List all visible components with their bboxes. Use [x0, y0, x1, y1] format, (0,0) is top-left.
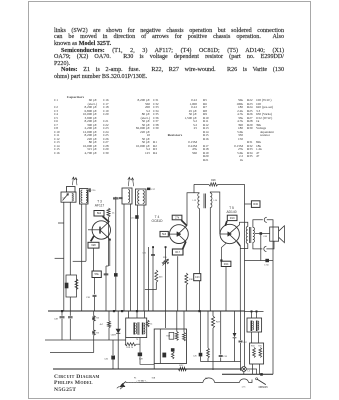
svg-text:+ 9V BATT –: + 9V BATT – — [136, 379, 148, 382]
resistor R3 — [92, 330, 95, 335]
wire blob to bus — [115, 277, 117, 311]
wires into driver transformer — [128, 311, 130, 318]
T3 collector lead — [100, 222, 109, 230]
AF box inner edge — [159, 329, 161, 364]
jack coil right — [256, 321, 258, 332]
resistor R35 — [259, 348, 262, 358]
battery enclosure top — [244, 260, 273, 262]
T6 secondary winding — [142, 323, 144, 335]
svg-text:R22: R22 — [179, 365, 184, 367]
svg-text:R18: R18 — [189, 279, 194, 281]
T5 base bar arrow — [228, 232, 232, 237]
caption bottom left — [54, 374, 100, 394]
thermistor R26 — [162, 261, 169, 264]
svg-text:4k7: 4k7 — [100, 324, 104, 326]
resistor R9 boxed value — [88, 242, 99, 248]
wire R28 left leg — [193, 184, 195, 192]
resistor R13 boxed value — [172, 215, 182, 220]
wires into AF box — [165, 311, 167, 328]
wire secondary top to T5 base — [210, 192, 220, 234]
svg-text:R17: R17 — [175, 250, 180, 254]
speaker bottom wire — [266, 241, 274, 249]
wire IFT1 left down — [123, 204, 125, 311]
svg-text:C20: C20 — [92, 190, 97, 192]
wire aerial coil down — [63, 202, 65, 311]
wire lamp to bottom rail — [243, 372, 245, 375]
driver transformer T7 primary — [198, 193, 200, 209]
capacitor C35 — [220, 311, 222, 355]
svg-text:1k: 1k — [150, 324, 152, 326]
svg-text:L14: L14 — [214, 200, 218, 202]
parts table column 5 — [247, 99, 299, 159]
wire R30 to supply rail — [245, 203, 252, 205]
svg-text:R30: R30 — [253, 202, 258, 206]
T4 base wire — [168, 233, 177, 235]
svg-text:5k6: 5k6 — [162, 232, 167, 236]
svg-text:S1B: S1B — [152, 377, 156, 379]
svg-text:R19: R19 — [230, 216, 235, 220]
wire secondary top to connector — [253, 220, 263, 228]
T5 emitter lead — [230, 235, 237, 242]
switch hump S1 — [203, 378, 215, 383]
T5 base wire — [220, 233, 228, 235]
capacitor C50 — [265, 259, 269, 262]
resistor R15b — [146, 320, 149, 327]
resistor R28 — [194, 183, 209, 185]
resistor R17 boxed value — [172, 249, 183, 255]
T5 bottom wire to R24 — [221, 243, 226, 260]
wire osc box to C20 — [87, 189, 90, 191]
audio earth rail — [53, 368, 241, 370]
jack resistor box — [250, 343, 264, 364]
resistor R14 boxed value — [160, 231, 168, 236]
svg-text:C35: C35 — [223, 356, 228, 358]
resistor R34 — [253, 348, 256, 358]
driver transformer core — [203, 194, 205, 209]
svg-text:R16 1k: R16 1k — [127, 347, 133, 349]
capacitor C13 top — [113, 197, 119, 199]
svg-text:OA79: OA79 — [111, 333, 117, 336]
wire R27 down — [212, 328, 214, 370]
resistor R20 — [183, 332, 186, 341]
svg-text:R18: R18 — [166, 336, 171, 338]
wire bottom joins — [201, 361, 241, 363]
wire R24 to bus — [225, 267, 227, 312]
wire C17 down — [148, 247, 150, 311]
wire transformer to speaker — [255, 233, 270, 235]
connector half top — [264, 217, 267, 222]
AF amplifier box — [154, 329, 186, 364]
wire oscillator down left — [81, 204, 83, 311]
capacitor C9 — [119, 197, 123, 199]
IFT2 secondary winding — [143, 191, 145, 204]
svg-text:OC81D: OC81D — [152, 219, 164, 223]
capacitor C11 in loop — [65, 283, 69, 289]
transistor T3 — [92, 221, 110, 239]
junction square on bottom rail — [260, 373, 263, 376]
wire R8 down — [108, 217, 110, 266]
resistor R15 — [155, 270, 158, 282]
wire AF line 2 — [50, 352, 94, 354]
coil L2 winding — [72, 193, 74, 201]
wire driver box left down — [125, 338, 127, 345]
resistor R21 small — [171, 352, 174, 359]
capacitor C46 column — [112, 340, 114, 355]
T5 collector wire — [238, 222, 248, 226]
resistor R18 upper — [185, 273, 188, 285]
trimmer arrow in aerial box — [63, 194, 69, 201]
svg-text:R27: R27 — [216, 322, 221, 324]
battery hump 2 — [240, 379, 249, 383]
svg-text:C15: C15 — [131, 217, 136, 219]
svg-text:56k: 56k — [94, 272, 99, 276]
parts table column 2 — [103, 99, 150, 155]
junction blob mid — [152, 246, 154, 248]
svg-text:AF117: AF117 — [95, 203, 105, 207]
wire T4 emitter down — [177, 256, 179, 311]
T4 collector wire — [187, 193, 200, 226]
capacitor C25 box — [169, 332, 174, 339]
tuning arrows above IF transformer — [128, 177, 131, 186]
wire between R4 R3 — [93, 321, 95, 330]
resistor R16 zigzag — [125, 343, 136, 346]
resistor R10 boxed value — [94, 211, 104, 217]
wire x165 down — [165, 247, 167, 311]
driver transformer secondary — [210, 193, 212, 208]
capacitor C16 — [104, 273, 109, 275]
svg-text:8k2: 8k2 — [97, 211, 102, 215]
battery enclosure bottom wire — [244, 310, 263, 312]
wire C22 column — [152, 247, 154, 255]
battery lead dashed — [126, 381, 139, 383]
T3 emitter down wire — [109, 241, 111, 266]
capacitor C14 blob — [114, 273, 118, 277]
jack coil left — [250, 321, 252, 332]
svg-text:C37: C37 — [243, 342, 248, 344]
svg-text:R34: R34 — [251, 346, 254, 348]
svg-text:C17: C17 — [151, 189, 156, 191]
wire IFT2 right down — [143, 205, 145, 311]
capacitor C26 blob — [162, 353, 166, 358]
wire stub at 290 — [145, 289, 157, 291]
wires jack resistor box to rail — [252, 364, 254, 374]
wire driver secondary down — [209, 208, 211, 312]
diode X2 — [234, 311, 236, 333]
junction on bus 3 — [198, 310, 200, 312]
T6 primary winding — [133, 323, 135, 335]
wire T3 emitter down — [93, 248, 95, 271]
wire lamp to jack — [246, 369, 256, 374]
wire IFT1 right down — [130, 204, 132, 311]
svg-text:C21: C21 — [142, 252, 147, 254]
parts table column 1 — [54, 96, 97, 156]
resistor R4 — [93, 311, 95, 316]
svg-text:C 50: C 50 — [264, 264, 269, 266]
junction on bus — [121, 310, 123, 312]
jack transformer box — [247, 318, 262, 332]
parts table column 3 — [153, 99, 197, 155]
wire aerial coil secondary down — [69, 202, 71, 275]
wire driver primary down — [199, 209, 201, 274]
wire loop to AVC bus — [69, 297, 71, 311]
svg-text:S1: S1 — [205, 378, 208, 380]
svg-text:R35: R35 — [258, 346, 261, 348]
resistor R2 in loop — [75, 279, 78, 290]
svg-text:1.75: 1.75 — [242, 387, 247, 389]
capacitor C27 blob — [171, 348, 175, 351]
resistor R27 — [212, 311, 214, 316]
T4 emitter lead — [179, 235, 186, 241]
oscillator coil box L3 L4 — [80, 189, 89, 205]
junction on bus 5 — [136, 310, 138, 312]
capacitor C48 — [61, 311, 63, 316]
wire stub horizontal — [73, 260, 86, 262]
parts table column 4 — [203, 99, 243, 162]
wire IFT2 left down — [137, 205, 139, 311]
battery lead wire — [139, 380, 252, 383]
capacitor C20 — [88, 188, 90, 192]
speaker LS1 — [270, 227, 279, 241]
T3 collector wire thick — [103, 216, 110, 222]
svg-text:F5: F5 — [134, 378, 136, 380]
aerial trimmer box C1 — [67, 187, 76, 193]
connector half bottom — [264, 246, 267, 251]
svg-text:C46: C46 — [104, 358, 109, 360]
svg-text:3k3: 3k3 — [159, 277, 163, 279]
tuned loop rectangle — [66, 275, 77, 297]
resistor R19 boxed value — [227, 215, 237, 220]
svg-text:R24: R24 — [224, 263, 229, 266]
T5 emitter wire thick — [237, 242, 240, 246]
supply rail right vertical — [244, 184, 246, 366]
junction blob C15 — [135, 215, 138, 219]
svg-text:C23: C23 — [195, 276, 200, 279]
wire secondary bottom to connector — [253, 242, 263, 249]
output transformer T8 primary — [246, 227, 248, 244]
T6 core — [137, 322, 139, 335]
output transformer core — [248, 227, 250, 243]
IFT2 winding — [138, 191, 139, 204]
capacitor C23 boxed — [194, 274, 201, 281]
wire R16 right end — [136, 338, 140, 353]
aerial coil box L1 L2 — [61, 192, 76, 202]
capacitor C17 — [147, 188, 150, 191]
pointer 27k box to T4 thick — [181, 220, 187, 226]
T4 base bar arrow — [177, 232, 181, 237]
wire R18 upper down — [185, 285, 187, 311]
wire C16 vertical — [105, 266, 107, 274]
resistor R25 — [207, 311, 209, 348]
svg-text:DB6045: DB6045 — [259, 386, 269, 389]
junction blob mid 2 — [165, 246, 167, 248]
capacitor C26b — [200, 311, 202, 353]
svg-text:C48: C48 — [54, 319, 59, 321]
resistor R8 — [107, 208, 110, 217]
IFT1 winding — [128, 190, 130, 203]
junction on bus 2 — [61, 310, 63, 312]
wire C13 column — [115, 197, 117, 198]
svg-text:C49: C49 — [263, 236, 268, 238]
svg-text:6k8: 6k8 — [91, 243, 96, 247]
svg-text:R28: R28 — [211, 179, 216, 182]
wire into jack box — [251, 311, 253, 318]
transistor T4 — [170, 225, 189, 244]
wire connector to right rail — [267, 220, 273, 374]
T4 emitter wire thick — [183, 242, 186, 249]
wire primary bottom — [240, 244, 248, 312]
chassis ground arrow — [121, 382, 126, 386]
T3 base bar — [99, 227, 101, 234]
wire R3 to AF line 2 — [93, 335, 95, 352]
transistor T5 — [220, 224, 239, 243]
T3 emitter lead — [100, 230, 110, 239]
svg-text:C18: C18 — [86, 297, 91, 299]
varistor R30 boxed value — [251, 201, 260, 208]
wire aerial stub — [58, 222, 64, 224]
wire junction to battery box — [260, 235, 262, 261]
T3 base wire — [88, 229, 100, 231]
switch SW2 contact — [256, 378, 258, 380]
tuning arrows above aerial coil L1 — [72, 177, 75, 185]
coil L3 winding — [81, 190, 82, 203]
resistor R6 boxed value — [92, 271, 101, 278]
capacitor C22 — [151, 254, 155, 256]
IF transformer can IFT2 — [136, 189, 147, 205]
T5 collector lead — [230, 226, 238, 233]
resistor R22 wire-wound — [178, 367, 186, 371]
svg-text:C26: C26 — [193, 355, 198, 357]
svg-text:L2: L2 — [248, 371, 251, 373]
stub join — [106, 265, 109, 267]
capacitor C4 — [69, 311, 71, 316]
capacitor C28 blob — [138, 353, 142, 357]
switch SW2 arm — [257, 379, 265, 384]
coil L4 winding — [86, 190, 87, 203]
svg-text:27k: 27k — [175, 215, 180, 219]
resistor R18 — [175, 332, 178, 341]
wire stub left AGC — [55, 257, 64, 259]
pointer R19 box to T5 thick — [225, 221, 227, 226]
junction dot speaker feed — [260, 232, 263, 235]
output transformer secondary — [253, 227, 255, 242]
wires jack box to resistor box — [251, 332, 253, 343]
svg-text:L13: L13 — [193, 200, 197, 202]
main earth bus — [48, 310, 245, 312]
junction blobs on battery enclosure wire — [251, 310, 253, 312]
junction blob R24 top — [220, 259, 222, 261]
wire R15 down — [155, 282, 157, 289]
wire C28 down — [140, 356, 154, 364]
T3 emitter junction blob — [109, 239, 111, 241]
T3 bias wire thick — [91, 236, 94, 241]
resistor R5 — [108, 311, 110, 321]
resistor R24 boxed value — [221, 261, 231, 266]
T4 collector lead — [179, 226, 187, 234]
driver transformer T6 box — [126, 318, 147, 338]
junction on bus 4 — [113, 310, 115, 312]
wire oscillator down right — [85, 204, 87, 261]
wire R6 to bus — [94, 278, 96, 295]
wire AGC line — [45, 339, 126, 341]
bottom rail — [222, 373, 273, 375]
pilot lamp — [241, 367, 246, 372]
svg-text:R3: R3 — [96, 333, 100, 335]
IF transformer can IFT1 — [122, 188, 132, 204]
capacitor C18 — [93, 294, 97, 296]
svg-text:AD140: AD140 — [226, 210, 236, 214]
capacitor C37 — [240, 311, 242, 340]
svg-text:T6: T6 — [136, 339, 138, 341]
top paragraph text — [54, 28, 284, 35]
diode X1 — [117, 311, 119, 329]
wire AF box to rail — [153, 364, 155, 370]
svg-text:R4: R4 — [96, 318, 100, 320]
svg-text:1k: 1k — [112, 213, 115, 215]
